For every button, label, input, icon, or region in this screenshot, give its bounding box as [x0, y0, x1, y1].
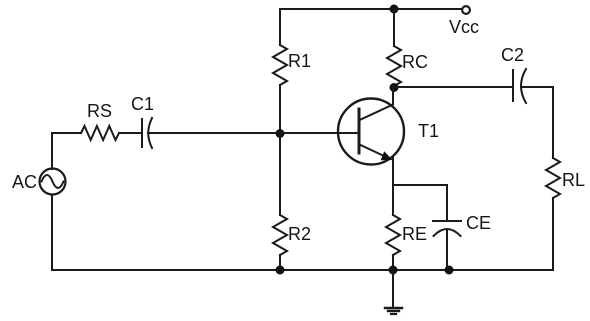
svg-text:R2: R2	[288, 224, 311, 244]
svg-text:RS: RS	[87, 101, 112, 121]
svg-text:C2: C2	[501, 45, 524, 65]
resistor R1	[273, 9, 311, 133]
wire right rail upper	[552, 87, 554, 158]
wire RS to C1	[119, 132, 141, 134]
wire input to RS	[52, 132, 81, 134]
wire top rail from R1 to Vcc lead	[280, 8, 462, 10]
terminal Vcc	[449, 6, 479, 37]
ground	[385, 270, 402, 314]
svg-text:Vcc: Vcc	[449, 17, 479, 37]
transistor T1	[338, 99, 439, 165]
wire base node to transistor	[280, 132, 359, 134]
svg-text:RC: RC	[402, 52, 428, 72]
wire collector to C2	[394, 86, 513, 88]
node RE bottom junction	[389, 266, 398, 275]
wire C1 to base node	[148, 132, 280, 134]
resistor R2	[273, 133, 311, 270]
node R2 bottom junction	[276, 266, 285, 275]
node top junction above RC	[390, 5, 399, 14]
svg-text:RE: RE	[402, 224, 427, 244]
svg-text:RL: RL	[562, 170, 585, 190]
svg-text:R1: R1	[288, 51, 311, 71]
resistor RE	[386, 185, 427, 270]
svg-text:CE: CE	[466, 213, 491, 233]
capacitor C1	[131, 94, 154, 148]
ac source AC	[12, 169, 66, 195]
wire emitter stub	[392, 157, 394, 186]
wire left rail upper	[51, 133, 53, 169]
svg-text:T1: T1	[418, 121, 439, 141]
svg-text:C1: C1	[131, 94, 154, 114]
resistor RL	[546, 158, 585, 198]
resistor RC	[387, 9, 428, 86]
node base junction	[276, 129, 285, 138]
wire emitter node to CE branch	[393, 184, 447, 186]
wire right rail lower	[552, 198, 554, 270]
svg-text:AC: AC	[12, 172, 37, 192]
wire CE branch down	[446, 185, 448, 221]
capacitor C2	[501, 45, 526, 103]
wire bottom rail	[52, 269, 553, 271]
resistor RS	[81, 101, 119, 140]
node collector junction	[390, 83, 399, 92]
wire collector stub	[392, 87, 394, 105]
node CE bottom junction	[445, 266, 454, 275]
wire left rail lower	[51, 195, 53, 271]
wire C2 to right rail	[521, 86, 553, 88]
capacitor CE	[433, 213, 491, 270]
